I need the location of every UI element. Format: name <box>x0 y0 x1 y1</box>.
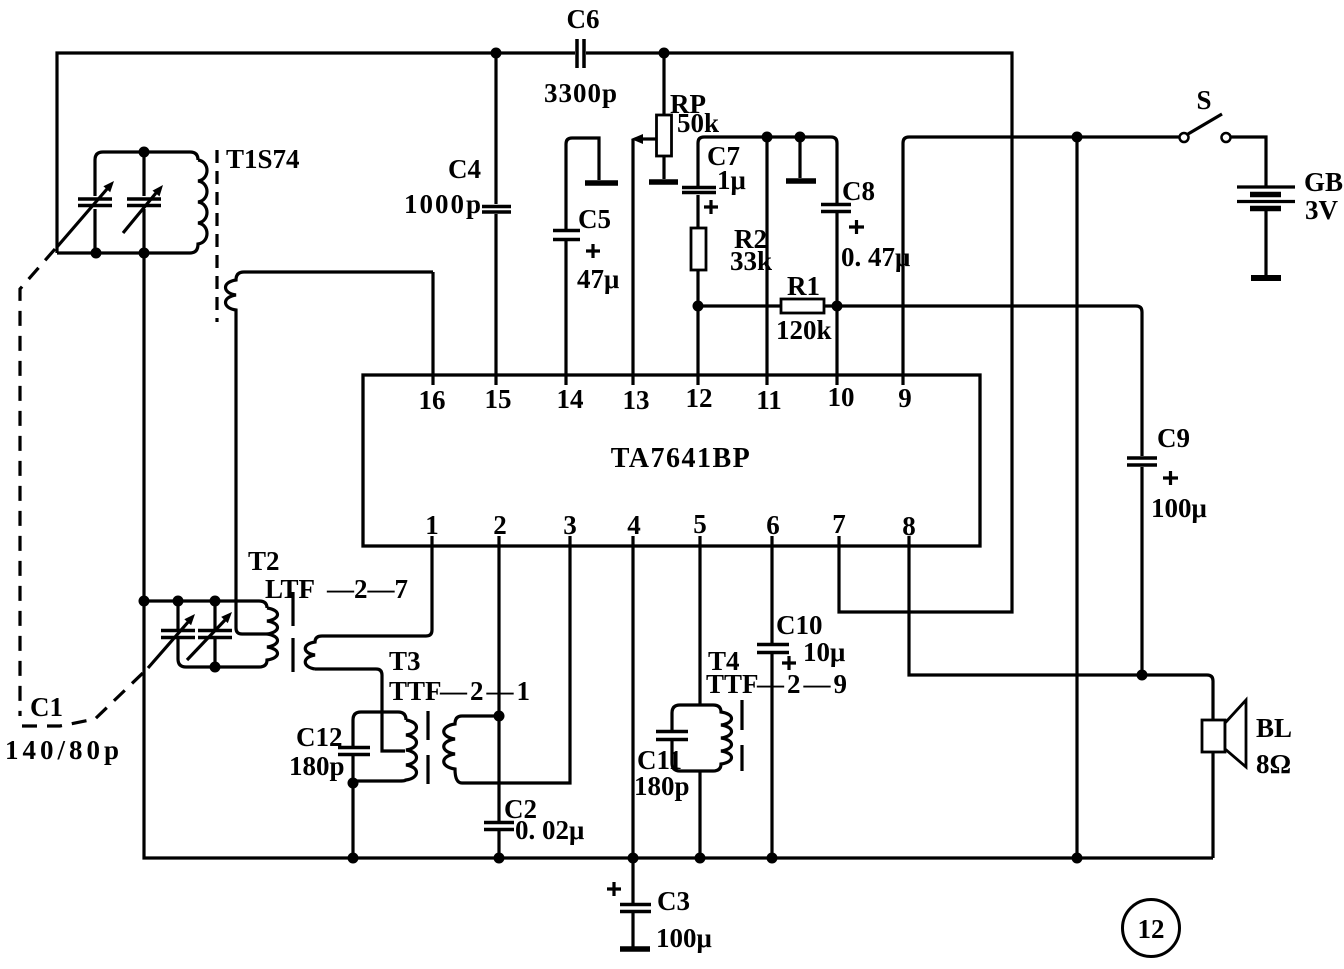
svg-text:3: 3 <box>563 510 577 540</box>
svg-text:12: 12 <box>1138 914 1165 944</box>
svg-text:2: 2 <box>493 510 507 540</box>
svg-text:8: 8 <box>902 511 916 541</box>
svg-text:12: 12 <box>686 383 713 413</box>
svg-text:50k: 50k <box>677 108 719 138</box>
svg-text:15: 15 <box>485 384 512 414</box>
svg-text:6: 6 <box>766 510 780 540</box>
svg-text:9: 9 <box>898 383 912 413</box>
svg-text:R1: R1 <box>787 271 820 301</box>
svg-text:—2—1: —2—1 <box>439 676 533 706</box>
svg-text:0. 02μ: 0. 02μ <box>515 815 584 845</box>
svg-text:TTF: TTF <box>389 676 442 706</box>
svg-text:S: S <box>1196 85 1211 115</box>
svg-text:140/80p: 140/80p <box>5 735 123 765</box>
svg-text:TA7641BP: TA7641BP <box>611 443 752 474</box>
svg-text:TTF: TTF <box>706 669 759 699</box>
svg-text:1μ: 1μ <box>717 165 746 195</box>
svg-text:LTF: LTF <box>265 574 315 604</box>
svg-text:180p: 180p <box>634 771 690 801</box>
svg-text:10μ: 10μ <box>803 637 845 667</box>
svg-text:5: 5 <box>693 509 707 539</box>
svg-text:1: 1 <box>425 510 439 540</box>
svg-text:C6: C6 <box>567 4 600 34</box>
svg-text:7: 7 <box>832 509 846 539</box>
svg-text:GB: GB <box>1304 167 1343 197</box>
svg-text:C1: C1 <box>30 692 63 722</box>
svg-text:C9: C9 <box>1157 423 1190 453</box>
svg-text:4: 4 <box>627 510 641 540</box>
svg-text:C3: C3 <box>657 886 690 916</box>
svg-text:C4: C4 <box>448 154 481 184</box>
svg-text:120k: 120k <box>776 315 832 345</box>
svg-text:13: 13 <box>623 385 650 415</box>
svg-text:0. 47μ: 0. 47μ <box>841 242 910 272</box>
svg-text:BL: BL <box>1256 713 1292 743</box>
svg-text:T1S74: T1S74 <box>226 144 300 174</box>
svg-text:1000p: 1000p <box>404 189 483 219</box>
svg-text:C10: C10 <box>776 610 823 640</box>
svg-text:C5: C5 <box>578 204 611 234</box>
svg-text:33k: 33k <box>730 246 772 276</box>
svg-text:C12: C12 <box>296 722 343 752</box>
svg-text:T2: T2 <box>248 546 280 576</box>
svg-text:—2—7: —2—7 <box>326 574 408 604</box>
svg-text:11: 11 <box>756 385 782 415</box>
svg-text:T3: T3 <box>389 646 421 676</box>
svg-text:47μ: 47μ <box>577 264 619 294</box>
svg-text:C8: C8 <box>842 176 875 206</box>
svg-text:3300p: 3300p <box>544 78 618 108</box>
svg-text:100μ: 100μ <box>1151 493 1207 523</box>
svg-text:100μ: 100μ <box>656 923 712 953</box>
svg-text:10: 10 <box>828 382 855 412</box>
svg-text:—2—9: —2—9 <box>756 669 850 699</box>
svg-text:16: 16 <box>419 385 446 415</box>
svg-text:8Ω: 8Ω <box>1256 749 1291 779</box>
svg-text:180p: 180p <box>289 751 345 781</box>
svg-text:3V: 3V <box>1305 195 1339 225</box>
svg-text:14: 14 <box>557 384 584 414</box>
